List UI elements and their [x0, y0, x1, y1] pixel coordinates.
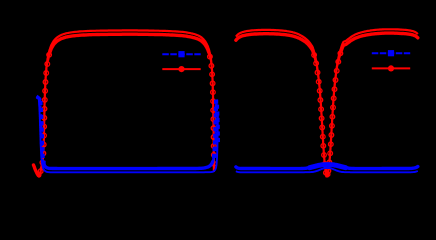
legend: red circle marker	[388, 65, 394, 71]
left plot: red S21 curve with circle markers (measured)	[34, 34, 214, 176]
legend: red solid line entry	[372, 67, 410, 69]
legend: blue dashed line entry	[162, 53, 200, 55]
left plot: thin red S21 curve (simulated)	[34, 30, 214, 176]
right plot: merged square markers over blue bump	[310, 165, 346, 168]
legend: blue square marker	[388, 50, 394, 56]
right plot: ring marker at notch tip	[325, 172, 330, 177]
right plot: thin red S21 curve (simulated)	[236, 29, 418, 176]
left plot: dashed blue S11 curve with square markers (measured)	[38, 98, 218, 169]
legend: blue dashed line entry	[372, 52, 410, 54]
right plot: dashed blue S11 curve with square markers (measured)	[236, 165, 418, 169]
right plot: thin blue S11 curve (simulated)	[236, 168, 418, 172]
legend: blue square marker	[178, 51, 184, 57]
legend: red circle marker	[178, 66, 184, 72]
right plot: red S21 curve with circle markers (measured)	[236, 33, 418, 176]
legend: red solid line entry	[162, 68, 200, 70]
left plot: thin blue S11 curve (simulated)	[37, 96, 218, 173]
